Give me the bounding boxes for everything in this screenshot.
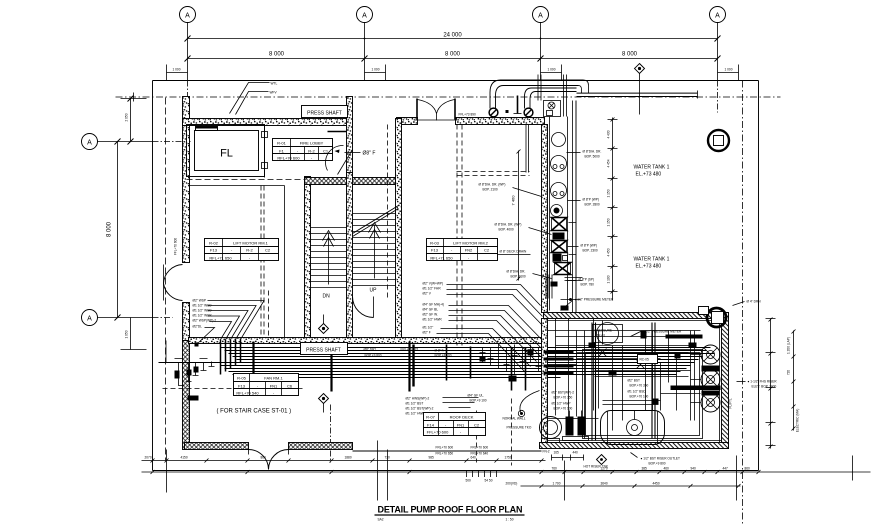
grid line A1 dashed extension bbox=[187, 81, 189, 126]
svg-text:FRL+70 615: FRL+70 615 bbox=[401, 348, 419, 352]
left wall door leaf bbox=[164, 265, 183, 284]
stair break line bbox=[353, 206, 399, 234]
FL room door jambs bbox=[264, 125, 266, 178]
svg-text:1 150: 1 150 bbox=[607, 189, 611, 197]
dashed extension lines bbox=[476, 411, 478, 463]
svg-text:RC-05: RC-05 bbox=[640, 358, 649, 362]
svg-text:Ø 8"P (SP): Ø 8"P (SP) bbox=[579, 278, 595, 282]
svg-text:Ø 8"DIA. DR. (WP): Ø 8"DIA. DR. (WP) bbox=[495, 223, 522, 227]
svg-text:1750: 1750 bbox=[505, 456, 512, 460]
press shaft label box 1 bbox=[302, 106, 348, 118]
svg-text:Ø 8"DIA. DR. (WP): Ø 8"DIA. DR. (WP) bbox=[479, 183, 506, 187]
svg-text:ELECTRIC (MA): ELECTRIC (MA) bbox=[796, 409, 800, 433]
main pipe bundle run bbox=[217, 348, 715, 378]
fire pumps right column bbox=[701, 345, 720, 412]
long top pipe run bbox=[577, 93, 698, 96]
roof leader WFV bbox=[236, 92, 269, 115]
chase left wall bbox=[542, 125, 548, 313]
right flight treads bbox=[353, 214, 396, 286]
lift motor rm2 double entrance doors bbox=[416, 99, 418, 120]
svg-text:EL.+73 480: EL.+73 480 bbox=[636, 264, 662, 270]
svg-text:DN: DN bbox=[323, 294, 331, 300]
stair centre wall bbox=[347, 173, 353, 341]
svg-text:Ø8" F: Ø8" F bbox=[363, 151, 376, 157]
pump fitting c3 bbox=[551, 183, 567, 199]
valve X3 bbox=[555, 263, 571, 275]
heavy header bar bbox=[671, 386, 721, 391]
left vertical dim 8 000 bbox=[117, 142, 119, 318]
svg-text:1 000: 1 000 bbox=[725, 68, 733, 72]
left grid bubble A row2 bbox=[82, 310, 98, 326]
svg-text:Ø 8"DIA. DR.: Ø 8"DIA. DR. bbox=[583, 150, 602, 154]
svg-text:F13: F13 bbox=[431, 248, 439, 253]
svg-text:500: 500 bbox=[466, 479, 472, 483]
svg-text:WTL: WTL bbox=[271, 82, 278, 86]
svg-text:F13: F13 bbox=[238, 384, 246, 389]
svg-text:Ø 8" F.: Ø 8" F. bbox=[435, 349, 445, 353]
svg-text:BOP. 2800: BOP. 2800 bbox=[585, 203, 600, 207]
svg-text:Ø2" V(W×WP): Ø2" V(W×WP) bbox=[423, 282, 444, 286]
bottom exterior wall left segment bbox=[185, 443, 249, 450]
svg-text:1 700: 1 700 bbox=[553, 482, 561, 486]
svg-text:385: 385 bbox=[642, 467, 648, 471]
svg-text:Ø1 1/2" BST(WP)-2: Ø1 1/2" BST(WP)-2 bbox=[406, 407, 434, 411]
dashed extension below press shaft bbox=[330, 405, 332, 463]
svg-text:PRESS SHAFT: PRESS SHAFT bbox=[307, 111, 342, 117]
svg-text:LIFT MOTOR RM.1: LIFT MOTOR RM.1 bbox=[233, 241, 269, 246]
dark fitting 2 bbox=[553, 233, 565, 240]
left exterior wall lower bbox=[183, 303, 190, 341]
door label 8F bbox=[345, 152, 361, 154]
deck drain label bbox=[498, 254, 531, 256]
north wall band lift motor rm2 bbox=[397, 118, 418, 125]
pump room mesh pipes bbox=[585, 321, 677, 439]
svg-text:WATER TANK 1: WATER TANK 1 bbox=[634, 165, 670, 171]
svg-text:Ø2" F: Ø2" F bbox=[423, 331, 431, 335]
dimension line 24 000 bbox=[188, 38, 718, 40]
svg-text:R-2: R-2 bbox=[308, 149, 315, 154]
horizontal cylindrical tank bbox=[601, 411, 665, 445]
svg-text:4 454: 4 454 bbox=[607, 159, 611, 167]
svg-text:R-03: R-03 bbox=[430, 241, 439, 246]
svg-text:Ø2" BST: Ø2" BST bbox=[628, 379, 641, 383]
svg-text:BOP.+9 100: BOP.+9 100 bbox=[470, 399, 487, 403]
svg-text:F14: F14 bbox=[427, 423, 435, 428]
grid bubble A2 bbox=[357, 7, 373, 23]
lift motor rm2 left wall line bbox=[396, 119, 398, 344]
pressure meter label 1 bbox=[561, 301, 573, 311]
svg-text:Ø2" V: Ø2" V bbox=[423, 292, 432, 296]
svg-text:BOP. 780: BOP. 780 bbox=[581, 283, 595, 287]
svg-text:1 200 (LAP): 1 200 (LAP) bbox=[787, 337, 791, 354]
top horizontal centerline bbox=[116, 96, 781, 98]
svg-text:BOP.+8 100: BOP.+8 100 bbox=[435, 354, 452, 358]
svg-text:3640: 3640 bbox=[601, 482, 608, 486]
right stack leaders bbox=[437, 285, 547, 372]
internal piping horizontals bbox=[548, 331, 701, 419]
fire lobby table R-01 bbox=[273, 139, 333, 161]
lift shaft dashed rm2 bbox=[456, 125, 458, 346]
svg-text:R-05: R-05 bbox=[237, 376, 246, 381]
svg-text:R-07: R-07 bbox=[426, 415, 435, 420]
svg-text:8 000: 8 000 bbox=[269, 52, 285, 58]
left stub fittings bbox=[159, 362, 217, 364]
svg-text:BOP.+70 350: BOP.+70 350 bbox=[554, 396, 573, 400]
FL room outer bbox=[187, 125, 265, 177]
svg-text:4450: 4450 bbox=[653, 482, 660, 486]
extension verticals bbox=[166, 450, 168, 493]
svg-text:FRL+70 600: FRL+70 600 bbox=[471, 446, 489, 450]
svg-text:1 000: 1 000 bbox=[548, 68, 556, 72]
svg-text:BOP. 5000: BOP. 5000 bbox=[585, 155, 600, 159]
svg-text:Ø 4" DRN: Ø 4" DRN bbox=[747, 300, 762, 304]
lower chase pipes bbox=[546, 275, 552, 299]
right outside dim 2 bbox=[793, 331, 795, 431]
svg-text:BOP.+9 800: BOP.+9 800 bbox=[649, 462, 666, 466]
flow diamond 2 bbox=[319, 394, 329, 404]
extension vertical bbox=[377, 441, 379, 501]
svg-text:FL: FL bbox=[220, 148, 233, 160]
svg-text:Ø4" GF BL: Ø4" GF BL bbox=[423, 308, 439, 312]
svg-text:LIFT MOTOR RM.2: LIFT MOTOR RM.2 bbox=[453, 241, 489, 246]
svg-text:8 000: 8 000 bbox=[622, 52, 638, 58]
dark cluster bbox=[553, 254, 562, 262]
svg-text:440: 440 bbox=[573, 451, 579, 455]
pump room bottom wall bbox=[540, 443, 729, 449]
svg-text:● 1-1/2" FHS RISER: ● 1-1/2" FHS RISER bbox=[748, 380, 778, 384]
svg-text:Ø1 1/2" WSR: Ø1 1/2" WSR bbox=[193, 314, 213, 318]
pump room right wall bbox=[722, 313, 729, 449]
risers into chase bbox=[538, 81, 567, 117]
flange 1 bbox=[489, 108, 498, 117]
svg-text:C1: C1 bbox=[323, 149, 329, 154]
roof edge left bbox=[152, 81, 154, 471]
svg-text:BOP.+70 350: BOP.+70 350 bbox=[630, 384, 649, 388]
dashed boundary under FL bbox=[187, 179, 341, 181]
svg-text:F1: F1 bbox=[279, 149, 284, 154]
mini dim 2 050 top-left bbox=[130, 99, 132, 142]
svg-text:Ø2" BST(WP)-2: Ø2" BST(WP)-2 bbox=[552, 391, 575, 395]
entry manifold fittings bbox=[483, 345, 539, 375]
pump room left wall bbox=[542, 319, 548, 443]
north interior wall band bbox=[183, 119, 353, 126]
chase inner lines bbox=[549, 117, 551, 311]
svg-text:54 50: 54 50 bbox=[485, 479, 493, 483]
heavy riser drop 3 bbox=[408, 342, 410, 392]
chase top fitting box bbox=[544, 101, 561, 117]
svg-text:Ø2"DL: Ø2"DL bbox=[193, 325, 203, 329]
svg-text:BOP. 2100: BOP. 2100 bbox=[483, 188, 498, 192]
svg-text:FFL+73 890: FFL+73 890 bbox=[459, 113, 477, 117]
svg-text:Ø1 1/2" HWR: Ø1 1/2" HWR bbox=[423, 318, 443, 322]
svg-text:Ø1 1/2" FHR: Ø1 1/2" FHR bbox=[423, 287, 442, 291]
svg-text:DETAIL PUMP ROOF FLOOR PLAN: DETAIL PUMP ROOF FLOOR PLAN bbox=[378, 505, 523, 515]
round tank left bbox=[540, 417, 562, 439]
svg-text:FN2: FN2 bbox=[465, 248, 473, 253]
grid line A4 dashed extension bbox=[717, 81, 719, 113]
column marker bbox=[708, 130, 729, 151]
roof edge top bbox=[153, 80, 759, 82]
svg-text:RFL+71 650: RFL+71 650 bbox=[430, 256, 453, 261]
stair right wall bbox=[396, 119, 402, 344]
svg-text:Ø4" GF UL.: Ø4" GF UL. bbox=[468, 394, 485, 398]
svg-text:A: A bbox=[362, 13, 367, 20]
stair top wall band bbox=[305, 178, 401, 185]
inner room lines bbox=[548, 320, 722, 322]
svg-text:UP: UP bbox=[370, 288, 378, 294]
svg-text:8 000: 8 000 bbox=[445, 52, 461, 58]
svg-text:Ø 8" DECK DRAIN: Ø 8" DECK DRAIN bbox=[500, 250, 528, 254]
svg-text:760: 760 bbox=[552, 467, 558, 471]
table R-03 lift motor rm2 bbox=[427, 239, 498, 261]
svg-text:460: 460 bbox=[664, 467, 670, 471]
svg-text:FRL+70 650: FRL+70 650 bbox=[436, 452, 454, 456]
bottom double doors bbox=[249, 450, 269, 470]
svg-text:( FOR STAIR CASE ST-01 ): ( FOR STAIR CASE ST-01 ) bbox=[217, 409, 292, 415]
right flight arrow bbox=[374, 225, 376, 279]
svg-text:FN1: FN1 bbox=[270, 384, 278, 389]
svg-text:8 000: 8 000 bbox=[107, 221, 113, 237]
svg-text:985: 985 bbox=[429, 456, 435, 460]
stair exit door bbox=[353, 297, 374, 318]
pressure meter label 2 bbox=[631, 332, 641, 337]
svg-text:FL/FTL: FL/FTL bbox=[729, 398, 733, 408]
svg-text:● 1/2" BST RISER OUTLET: ● 1/2" BST RISER OUTLET bbox=[641, 457, 681, 461]
svg-text:A: A bbox=[185, 13, 190, 20]
svg-text:7 460: 7 460 bbox=[511, 195, 516, 206]
grid bubble A4 bbox=[710, 7, 726, 23]
svg-text:BOP. 2100: BOP. 2100 bbox=[511, 275, 526, 279]
svg-text:Ø4" GF MH(-4): Ø4" GF MH(-4) bbox=[423, 303, 445, 307]
svg-text:FAN RM.1: FAN RM.1 bbox=[264, 376, 283, 381]
mini dims 1 000 bbox=[167, 72, 188, 74]
7460 dim bbox=[518, 151, 520, 281]
left grid centerlines bbox=[98, 141, 153, 143]
dim row 2 tick group bbox=[467, 470, 497, 477]
manifold dark bars bbox=[544, 351, 574, 354]
extra chase fittings bbox=[551, 282, 558, 287]
grid bubble A1 bbox=[180, 7, 196, 23]
svg-text:FIRE LOBBY: FIRE LOBBY bbox=[300, 141, 324, 146]
svg-text:Ø 8"P (WP): Ø 8"P (WP) bbox=[583, 198, 599, 202]
svg-text:FFL+70 600: FFL+70 600 bbox=[427, 430, 449, 435]
svg-text:720: 720 bbox=[787, 370, 791, 376]
roof edge bottom bbox=[153, 470, 759, 472]
flange 2 bbox=[524, 108, 533, 117]
svg-text:RFL+70 540: RFL+70 540 bbox=[236, 391, 259, 396]
svg-text:1 : 50: 1 : 50 bbox=[506, 518, 514, 522]
svg-text:Ø2" GF W.: Ø2" GF W. bbox=[423, 313, 438, 317]
grid bubble A3 bbox=[533, 7, 549, 23]
svg-text:Ø2" WSP: Ø2" WSP bbox=[193, 299, 207, 303]
svg-text:BOP. 4000: BOP. 4000 bbox=[499, 228, 514, 232]
svg-text:4 430: 4 430 bbox=[607, 130, 611, 138]
svg-text:Ø1 1/2" BST: Ø1 1/2" BST bbox=[406, 402, 424, 406]
left exterior wall upper bbox=[183, 97, 190, 263]
heavy riser drop at wall bbox=[412, 345, 414, 387]
left flight treads bbox=[311, 228, 347, 288]
roof edge right bbox=[758, 81, 760, 471]
dashed line right flight bbox=[387, 125, 389, 301]
svg-text:24 000: 24 000 bbox=[443, 33, 462, 39]
bottom exterior wall right segment bbox=[289, 443, 353, 450]
stair case table bbox=[234, 374, 299, 396]
svg-text:1 150: 1 150 bbox=[607, 218, 611, 226]
svg-text:1 000: 1 000 bbox=[372, 68, 380, 72]
table R-07 roof deck bbox=[424, 413, 486, 436]
valve X1 bbox=[552, 218, 567, 231]
svg-text:BOP.+9 800: BOP.+9 800 bbox=[365, 354, 382, 358]
svg-text:ELEV. BOP. 3000: ELEV. BOP. 3000 bbox=[752, 385, 777, 389]
svg-text:R-2: R-2 bbox=[246, 248, 253, 253]
dark fitting bbox=[551, 205, 563, 217]
svg-text:A: A bbox=[538, 13, 543, 20]
press shaft wall column bbox=[347, 97, 353, 181]
curved leader bbox=[520, 391, 540, 413]
roof step line bbox=[353, 450, 542, 452]
fire lobby door bbox=[328, 131, 347, 133]
dashed inner roof line left bbox=[165, 98, 167, 461]
chase right double wall bbox=[572, 101, 574, 313]
svg-text:447: 447 bbox=[723, 467, 729, 471]
svg-text:1 100: 1 100 bbox=[607, 275, 611, 283]
booster pumps bbox=[566, 417, 574, 436]
FL room top tab bbox=[196, 127, 218, 131]
svg-text:BOP. 2300: BOP. 2300 bbox=[583, 249, 598, 253]
svg-text:F13: F13 bbox=[210, 248, 218, 253]
pipe elbow 2 riser bbox=[525, 88, 577, 109]
right outside dim 1 bbox=[770, 319, 772, 449]
pressure tank bbox=[597, 323, 619, 345]
svg-text:1 000: 1 000 bbox=[173, 68, 181, 72]
svg-text:Ø1 1/2" HWR: Ø1 1/2" HWR bbox=[406, 412, 426, 416]
nested riser leaders bbox=[198, 301, 265, 344]
svg-text:860: 860 bbox=[745, 467, 751, 471]
table R-02 lift motor rm1 bbox=[205, 239, 279, 261]
svg-text:A: A bbox=[87, 316, 92, 323]
svg-text:R-02: R-02 bbox=[209, 241, 218, 246]
svg-text:Ø2" HWS(WP)-2: Ø2" HWS(WP)-2 bbox=[406, 397, 430, 401]
svg-text:165: 165 bbox=[554, 451, 560, 455]
svg-text:SA2: SA2 bbox=[378, 518, 384, 522]
mini dim 1 050 bottom-left bbox=[130, 318, 132, 350]
svg-text:Ø1 1/2" HWP: Ø1 1/2" HWP bbox=[552, 402, 571, 406]
svg-text:4 450: 4 450 bbox=[607, 248, 611, 256]
svg-text:ROOF DECK: ROOF DECK bbox=[450, 415, 474, 420]
svg-text:FRL+70 600: FRL+70 600 bbox=[436, 446, 454, 450]
svg-text:C6: C6 bbox=[287, 384, 293, 389]
pipe elbow 1 riser bbox=[490, 80, 584, 109]
svg-text:Ø 8"DIA. DR.: Ø 8"DIA. DR. bbox=[507, 270, 526, 274]
dim row 1 bbox=[142, 460, 546, 462]
heavy riser drop 1 bbox=[252, 342, 254, 392]
grid stem lines bbox=[187, 23, 189, 81]
svg-text:BOP.+70 100: BOP.+70 100 bbox=[554, 407, 573, 411]
svg-text:200(VD): 200(VD) bbox=[506, 482, 518, 486]
rc label box bbox=[638, 355, 658, 364]
corner flue circle bbox=[707, 308, 726, 327]
pump room top wall bbox=[544, 313, 729, 319]
left flight arrow bbox=[328, 233, 330, 285]
svg-text:1 050: 1 050 bbox=[125, 330, 129, 338]
FL room inner bbox=[195, 131, 259, 171]
svg-text:940: 940 bbox=[691, 467, 697, 471]
svg-text:R-01: R-01 bbox=[277, 141, 286, 146]
svg-text:860: 860 bbox=[261, 456, 267, 460]
roof leader WTL bbox=[230, 83, 270, 114]
pump fitting c2 bbox=[551, 156, 567, 172]
svg-text:A: A bbox=[715, 13, 720, 20]
left grid bubble A row1 bbox=[82, 134, 98, 150]
svg-text:RFL+71 650: RFL+71 650 bbox=[209, 256, 232, 261]
flow diamond on tank line bbox=[635, 64, 645, 115]
stair bottom wall band bbox=[189, 338, 544, 344]
svg-text:Ø8" DR?: Ø8" DR? bbox=[364, 348, 377, 352]
svg-text:2070: 2070 bbox=[145, 456, 152, 460]
svg-text:FN-2: FN-2 bbox=[543, 450, 550, 454]
heavy riser drop 2 bbox=[330, 342, 332, 392]
dim row 2 bbox=[142, 471, 871, 473]
svg-text:PRESSURE TKO: PRESSURE TKO bbox=[507, 426, 532, 430]
svg-text:2 050: 2 050 bbox=[125, 113, 129, 121]
svg-text:Ø 8"P (WP): Ø 8"P (WP) bbox=[581, 244, 597, 248]
svg-text:BOP.+70 100: BOP.+70 100 bbox=[630, 395, 649, 399]
internal piping verticals bbox=[556, 319, 661, 417]
press shaft label box 2 bbox=[301, 343, 348, 355]
svg-text:WATER TANK 1: WATER TANK 1 bbox=[634, 257, 670, 263]
tank vertical dim bbox=[612, 118, 614, 301]
svg-text:FN1: FN1 bbox=[457, 423, 465, 428]
dimension line 8 000 x3 bbox=[188, 58, 718, 60]
svg-text:1270: 1270 bbox=[601, 467, 608, 471]
dashed tank wall line right bbox=[742, 81, 744, 524]
equipment pad rect bbox=[583, 350, 703, 439]
svg-text:4150: 4150 bbox=[181, 456, 188, 460]
flange dots bbox=[506, 110, 509, 113]
svg-text:A: A bbox=[87, 140, 92, 147]
lift shaft dashed rm1 bbox=[260, 186, 262, 346]
svg-text:C2: C2 bbox=[265, 248, 271, 253]
dashed datum line bbox=[163, 388, 303, 390]
dim row 3 bbox=[521, 485, 741, 487]
drain funnel circle bbox=[552, 133, 566, 147]
svg-text:NORMAL WALL: NORMAL WALL bbox=[503, 417, 526, 421]
svg-text:RFL+70 600: RFL+70 600 bbox=[277, 156, 300, 161]
svg-text:FFL+70 600: FFL+70 600 bbox=[174, 238, 178, 256]
svg-text:C2: C2 bbox=[474, 423, 480, 428]
svg-text:EL.+73 480: EL.+73 480 bbox=[636, 172, 662, 178]
flow diamond 1 bbox=[319, 324, 329, 334]
svg-text:● 1/2" PRESSURE METER: ● 1/2" PRESSURE METER bbox=[575, 298, 615, 302]
pump header pipe bbox=[691, 331, 695, 421]
valve X2 bbox=[552, 241, 567, 253]
elbow 1 corner down bbox=[579, 80, 589, 93]
svg-text:WFV: WFV bbox=[270, 91, 278, 95]
svg-text:1880: 1880 bbox=[345, 456, 352, 460]
svg-text:C2: C2 bbox=[484, 248, 490, 253]
lift motor rm1 walls bbox=[305, 177, 311, 344]
svg-text:640: 640 bbox=[471, 456, 477, 460]
svg-text:Ø1 1/2" BSD: Ø1 1/2" BSD bbox=[628, 390, 647, 394]
svg-text:Ø1 1/2": Ø1 1/2" bbox=[423, 326, 434, 330]
svg-text:PRESS SHAFT: PRESS SHAFT bbox=[306, 348, 341, 354]
